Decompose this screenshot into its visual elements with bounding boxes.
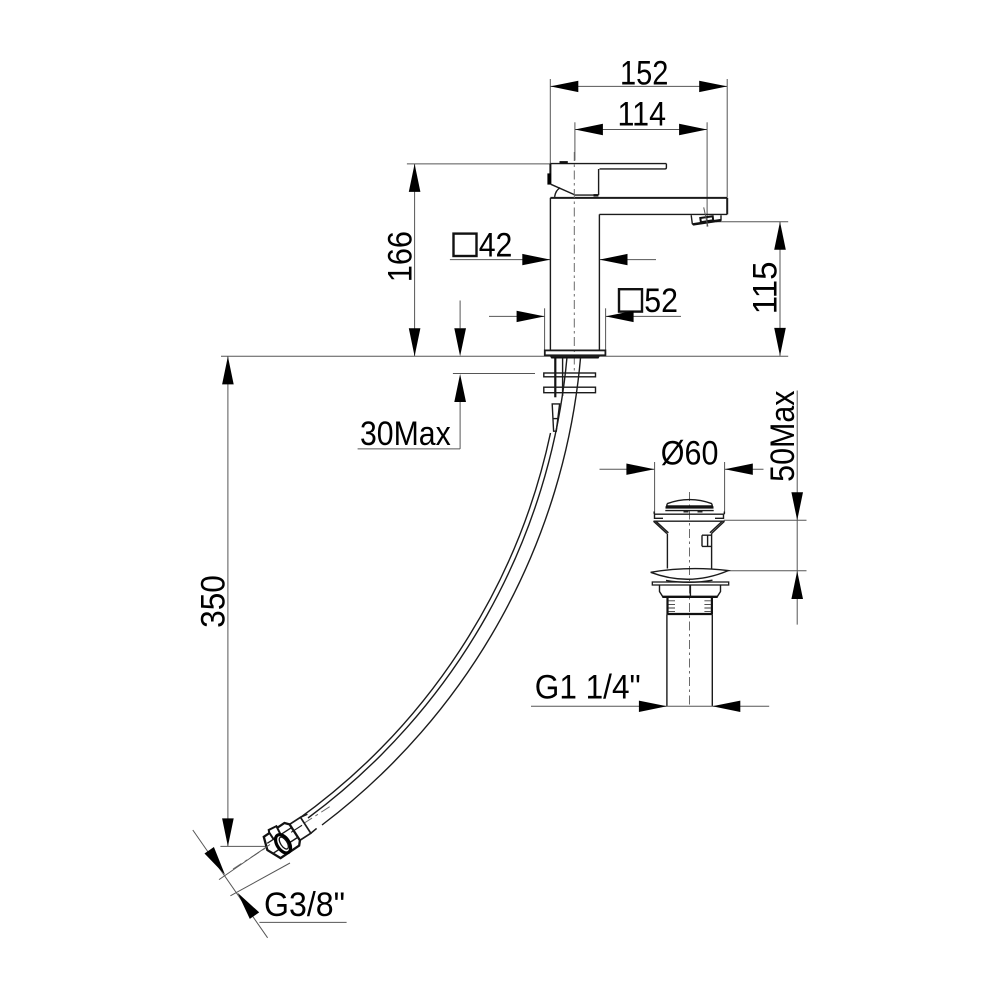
svg-text:114: 114 (618, 96, 667, 134)
leader line right with arrow (600, 259, 657, 261)
dimension G3/8 (193, 830, 347, 938)
dim line 350 vertical (227, 356, 229, 846)
shank thread lines (669, 601, 711, 612)
nut bottom thick (662, 596, 717, 598)
handle arc detail (555, 188, 561, 197)
cap dome (667, 500, 712, 504)
base collar right (598, 355, 600, 358)
countertop reference line (221, 355, 788, 357)
extension line left x=544.6 (544, 308, 546, 350)
rod end wedge (552, 404, 559, 431)
dimension square 42 (450, 227, 656, 266)
lower shaft line (459, 402, 461, 449)
drain assembly (531, 391, 807, 713)
dim line 115 vertical (779, 222, 781, 356)
leader underline (358, 448, 461, 450)
overflow notch (702, 535, 711, 546)
arrow right (699, 81, 727, 92)
svg-text:50Max: 50Max (764, 391, 802, 482)
svg-text:152: 152 (620, 55, 668, 93)
spout bottom line (599, 213, 727, 215)
label G3/8 underline (259, 921, 346, 923)
handle lever top line (550, 163, 666, 165)
nut facet line (689, 585, 691, 597)
cone to hose (300, 813, 317, 833)
cap band top (666, 504, 713, 506)
lower reference line y=373.5 (453, 373, 535, 375)
threaded shank (668, 597, 712, 615)
arrow up (409, 164, 421, 192)
nut body (260, 821, 302, 862)
dim line 114 (575, 129, 707, 131)
drain body sides (667, 534, 711, 569)
svg-text:52: 52 (644, 282, 678, 320)
extension line left x=575 (574, 122, 576, 160)
D60 extension lines (654, 462, 656, 514)
dimension 50Max (796, 391, 798, 625)
faucet body group (545, 152, 727, 372)
flexible hose (297, 358, 581, 825)
bottom reference line (220, 845, 265, 847)
50Max reference line lower (726, 570, 807, 572)
shank bottom edge (668, 613, 712, 615)
hose end fitting (233, 807, 330, 870)
funnel left slope (654, 521, 669, 533)
body centerline (573, 152, 575, 372)
dimension 30Max (358, 301, 535, 454)
arrow down to countertop (454, 328, 466, 356)
extension line right x=727 (726, 79, 728, 198)
arrow down (222, 818, 234, 846)
dimension 115 right (716, 222, 788, 356)
arrow left (575, 124, 603, 135)
body right edge (598, 214, 600, 350)
svg-text:166: 166 (382, 231, 420, 282)
handle bottom right tick (594, 194, 599, 196)
handle right edge (598, 169, 600, 195)
extension line through arrow A (219, 845, 270, 880)
50Max reference line upper (724, 519, 807, 521)
flange dish (654, 512, 724, 519)
cap stem marks (684, 511, 689, 513)
nut facet line lower (273, 838, 298, 854)
dim line 152 (550, 85, 727, 87)
svg-text:G1 1/4": G1 1/4" (535, 668, 641, 706)
body left edge (549, 198, 551, 351)
nut top tab (268, 825, 282, 839)
aerator bottom thick edge (693, 220, 721, 224)
hose outer left line (297, 433, 551, 820)
cap band thick (666, 506, 714, 508)
hex nut (660, 585, 721, 597)
diagonal dimension line (193, 830, 268, 938)
handle diagonal (551, 184, 575, 195)
mounting hardware under base (544, 358, 596, 431)
leader line left with arrow (450, 259, 550, 261)
threaded rod thick line (554, 358, 556, 397)
dimension 350 (195, 356, 266, 846)
wedge tick (553, 418, 558, 420)
dimension D60 line (600, 468, 655, 470)
handle bottom line (575, 194, 599, 196)
dimension G1 1/4 line (531, 705, 769, 707)
extension line top y=164 (407, 163, 551, 165)
base collar left (550, 355, 552, 358)
spout right edge (726, 198, 728, 215)
nut bore ellipse (272, 832, 293, 856)
flange funnel top (654, 520, 725, 522)
handle left edge (549, 164, 551, 185)
svg-text:30Max: 30Max (360, 415, 451, 453)
fitting axis centerline (233, 807, 330, 870)
arrow up to underside (454, 374, 466, 402)
square symbol 42 (454, 234, 477, 256)
dim line 166 vertical (414, 164, 416, 356)
diagonal arrow B pointing up-left (238, 893, 260, 919)
dimension 166 left (382, 164, 551, 356)
aerator diagonal line (704, 207, 708, 226)
arrow up (222, 356, 234, 384)
funnel right slope (710, 521, 725, 533)
svg-text:115: 115 (747, 261, 785, 314)
svg-text:Ø60: Ø60 (661, 434, 719, 472)
nut bore inner (277, 836, 290, 851)
svg-text:G3/8": G3/8" (264, 886, 345, 924)
hose outer right line (322, 358, 581, 825)
dimension 114 (575, 96, 707, 227)
washer bar 1 (544, 373, 596, 377)
extension line right x=707 (706, 122, 708, 226)
lever top thick segment (560, 161, 568, 164)
diagonal arrow A pointing down-right (205, 847, 226, 875)
tailpipe (667, 614, 712, 706)
drain centerline (689, 492, 691, 705)
handle pivot blob (547, 173, 551, 184)
aerator insert box (700, 216, 713, 222)
cap band bottom (665, 510, 713, 512)
threaded rod thin line (562, 358, 564, 396)
arrow right (679, 124, 707, 135)
leader line right with arrow (606, 315, 681, 317)
arrow down (409, 328, 421, 356)
extension line through arrow B (230, 863, 290, 896)
arrow down (774, 328, 786, 356)
extension line right x=605.6 (605, 308, 607, 350)
thread dash on axis (291, 825, 302, 832)
extension line top y=221.8 (716, 221, 788, 223)
arrow up (774, 222, 786, 250)
svg-text:42: 42 (479, 227, 513, 265)
curved washer (651, 569, 729, 583)
square symbol 52 (619, 289, 642, 311)
washer bar 2 (544, 387, 596, 393)
leader line left with arrow (489, 315, 545, 317)
base collar underside (552, 356, 599, 358)
nut facet line upper (267, 828, 291, 844)
arrow left (550, 81, 578, 92)
aerator outline (691, 215, 721, 224)
ferrule sleeve (290, 817, 311, 840)
dimension 152 top (550, 55, 727, 198)
flat washer (652, 582, 728, 585)
body top line (550, 197, 727, 199)
svg-text:350: 350 (195, 575, 233, 628)
extension line left x=550 (549, 79, 551, 163)
handle lever bottom line (600, 164, 667, 169)
upper shaft line (459, 301, 461, 329)
base plate (545, 350, 606, 355)
dimension square 52 (489, 282, 681, 350)
hose middle line (308, 358, 567, 818)
